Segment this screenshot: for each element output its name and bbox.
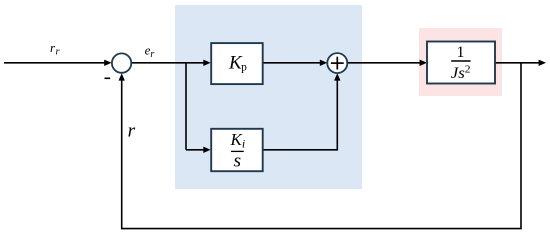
svg-text:s: s <box>234 150 242 171</box>
svg-text:r: r <box>128 120 136 141</box>
svg-text:1: 1 <box>457 44 465 61</box>
